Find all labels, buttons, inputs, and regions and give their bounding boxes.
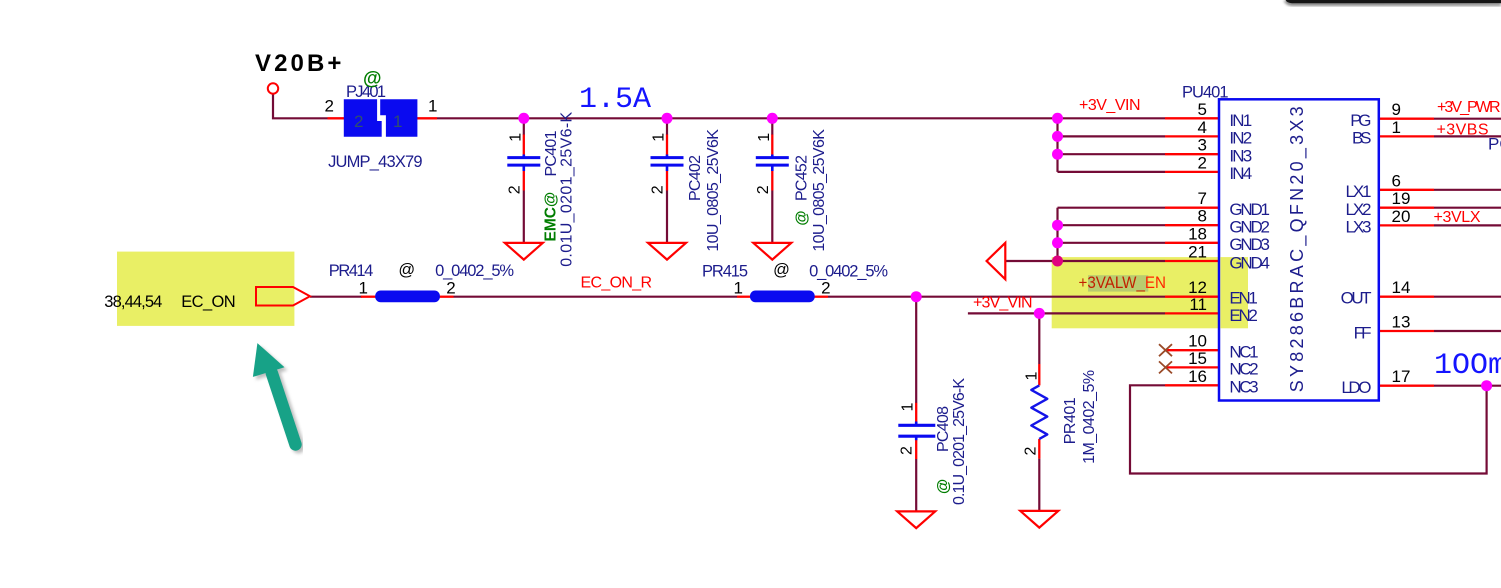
svg-text:JUMP_43X79: JUMP_43X79	[328, 153, 423, 171]
svg-text:EMC@: EMC@	[543, 192, 560, 242]
svg-text:1: 1	[734, 278, 743, 297]
svg-text:20: 20	[1392, 207, 1411, 226]
svg-text:1M_0402_5%: 1M_0402_5%	[1081, 370, 1098, 464]
svg-text:10U_0805_25V6K: 10U_0805_25V6K	[811, 129, 828, 252]
svg-text:2: 2	[755, 185, 772, 194]
svg-text:8: 8	[1198, 207, 1207, 226]
svg-text:@: @	[773, 261, 790, 279]
svg-text:1: 1	[900, 403, 917, 412]
svg-text:2: 2	[1198, 153, 1207, 172]
svg-text:IN3: IN3	[1229, 147, 1252, 166]
svg-text:SY8286BRAC_QFN20_3X3: SY8286BRAC_QFN20_3X3	[1287, 106, 1308, 392]
svg-text:PC408: PC408	[935, 406, 952, 452]
svg-text:1: 1	[507, 133, 524, 142]
svg-text:38,44,54: 38,44,54	[104, 293, 162, 311]
svg-text:+3V_VIN: +3V_VIN	[1079, 97, 1141, 114]
svg-text:IN1: IN1	[1229, 111, 1252, 130]
svg-text:PR401: PR401	[1062, 397, 1079, 444]
svg-text:1: 1	[1024, 372, 1041, 381]
svg-text:EC_ON_R: EC_ON_R	[581, 274, 653, 291]
svg-text:7: 7	[1198, 189, 1207, 208]
svg-text:FF: FF	[1354, 323, 1372, 342]
svg-text:PC401: PC401	[543, 130, 560, 176]
svg-text:IN2: IN2	[1229, 129, 1252, 148]
svg-text:GND2: GND2	[1229, 218, 1270, 237]
svg-text:+3VBS: +3VBS	[1437, 121, 1489, 138]
svg-text:LDO: LDO	[1341, 378, 1371, 397]
svg-text:PC452: PC452	[794, 155, 811, 201]
svg-text:15: 15	[1188, 349, 1207, 368]
svg-text:PC4: PC4	[1488, 135, 1501, 154]
svg-text:1: 1	[1392, 118, 1401, 137]
svg-text:2: 2	[506, 185, 523, 194]
svg-text:PR414: PR414	[329, 262, 374, 280]
svg-text:+3V_VIN: +3V_VIN	[973, 295, 1033, 312]
svg-text:2: 2	[446, 278, 455, 297]
svg-text:NC2: NC2	[1229, 360, 1258, 379]
svg-text:14: 14	[1392, 278, 1411, 297]
svg-text:10U_0805_25V6K: 10U_0805_25V6K	[705, 129, 722, 252]
svg-text:GND4: GND4	[1229, 253, 1270, 272]
svg-text:EN1: EN1	[1229, 289, 1258, 308]
svg-text:16: 16	[1188, 367, 1207, 386]
svg-text:PR415: PR415	[702, 262, 748, 280]
svg-text:LX1: LX1	[1346, 182, 1372, 201]
svg-text:OUT: OUT	[1341, 289, 1372, 308]
svg-text:2: 2	[1023, 447, 1040, 456]
svg-text:NC3: NC3	[1229, 378, 1258, 397]
svg-text:2: 2	[821, 278, 830, 297]
svg-text:5: 5	[1198, 100, 1207, 119]
svg-text:IN4: IN4	[1229, 164, 1252, 183]
svg-text:@: @	[935, 479, 952, 494]
svg-text:PC402: PC402	[687, 155, 704, 201]
svg-text:0_0402_5%: 0_0402_5%	[809, 262, 888, 280]
svg-text:V20B+: V20B+	[255, 50, 345, 77]
svg-text:1.5A: 1.5A	[579, 83, 651, 117]
svg-text:10: 10	[1188, 332, 1207, 351]
svg-text:18: 18	[1188, 224, 1207, 243]
svg-text:@: @	[398, 261, 415, 279]
svg-text:3: 3	[1198, 136, 1207, 155]
svg-text:1: 1	[756, 133, 773, 142]
svg-text:2: 2	[325, 96, 334, 115]
svg-text:2: 2	[354, 112, 363, 131]
svg-text:EN2: EN2	[1229, 306, 1258, 325]
svg-text:1OOm: 1OOm	[1434, 349, 1501, 383]
svg-text:17: 17	[1392, 367, 1411, 386]
svg-text:GND1: GND1	[1229, 200, 1270, 219]
svg-text:LX3: LX3	[1346, 218, 1372, 237]
svg-text:0.01U_0201_25V6-K: 0.01U_0201_25V6-K	[559, 111, 576, 266]
svg-text:11: 11	[1189, 295, 1207, 314]
svg-text:PU401: PU401	[1182, 84, 1229, 102]
svg-text:19: 19	[1392, 189, 1411, 208]
svg-text:1: 1	[428, 96, 437, 115]
svg-text:NC1: NC1	[1229, 343, 1258, 362]
svg-text:0.1U_0201_25V6-K: 0.1U_0201_25V6-K	[951, 378, 968, 505]
svg-text:13: 13	[1392, 313, 1411, 332]
svg-text:6: 6	[1392, 171, 1401, 190]
svg-text:9: 9	[1392, 100, 1401, 119]
svg-text:EC_ON: EC_ON	[181, 293, 236, 311]
svg-text:+3VALW_EN: +3VALW_EN	[1079, 273, 1167, 292]
svg-text:+3VLX: +3VLX	[1434, 209, 1481, 226]
svg-text:BS: BS	[1352, 129, 1372, 148]
svg-text:LX2: LX2	[1346, 200, 1372, 219]
svg-text:1: 1	[359, 278, 368, 297]
svg-text:1: 1	[651, 133, 668, 142]
svg-text:2: 2	[650, 185, 667, 194]
svg-text:1: 1	[393, 112, 402, 131]
svg-text:+3V_PWR: +3V_PWR	[1437, 99, 1501, 116]
svg-text:0_0402_5%: 0_0402_5%	[435, 262, 514, 280]
svg-text:@: @	[363, 69, 382, 90]
svg-text:PG: PG	[1350, 111, 1371, 130]
svg-text:21: 21	[1188, 243, 1207, 262]
svg-text:@: @	[794, 210, 811, 225]
svg-text:4: 4	[1198, 118, 1207, 137]
svg-text:GND3: GND3	[1229, 235, 1270, 254]
svg-text:2: 2	[899, 446, 916, 455]
